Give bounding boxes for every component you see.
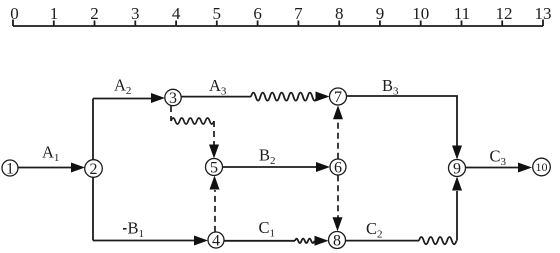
node 8 [329, 232, 346, 249]
node 10 [533, 158, 551, 176]
activity B2 shaft [223, 166, 318, 168]
arrowhead dummy 4-5 into node5 [210, 176, 220, 190]
node 1 [2, 160, 18, 176]
activity C1 shaft [224, 240, 295, 242]
svg-text:10: 10 [412, 4, 429, 23]
arrowhead A2 into node3 [151, 93, 165, 103]
activity A2 shaft [93, 98, 152, 100]
arrowhead A1 into node2 [71, 163, 85, 173]
ruler numbers 0-13 [10, 4, 551, 23]
svg-text:B3: B3 [382, 76, 399, 98]
svg-text:4: 4 [212, 233, 220, 250]
stray scan mark before B1 [123, 228, 127, 230]
svg-text:7: 7 [334, 89, 342, 106]
activity A1 shaft [18, 167, 72, 169]
svg-text:B1: B1 [128, 219, 145, 241]
svg-text:2: 2 [90, 4, 99, 23]
svg-text:C2: C2 [366, 219, 383, 241]
activity B1 shaft [93, 240, 195, 242]
arrowhead B1 into node4 [194, 236, 208, 246]
arrowhead A3 into node7 [316, 92, 330, 102]
node 7 [330, 88, 347, 105]
svg-text:7: 7 [294, 4, 303, 23]
svg-text:5: 5 [210, 160, 218, 177]
svg-text:9: 9 [453, 161, 461, 178]
node 6 [330, 159, 346, 175]
dummy 3-5 dashed drop [170, 106, 172, 121]
arrowhead C2 into node9 [452, 177, 462, 191]
svg-text:A1: A1 [42, 143, 59, 165]
svg-text:0: 0 [10, 4, 19, 23]
dummy 4-5 dashed riser [214, 190, 216, 232]
ruler ticks [13, 20, 543, 27]
arrowhead C3 into node10 [518, 163, 532, 173]
svg-text:6: 6 [253, 4, 262, 23]
node 4 [208, 232, 224, 248]
activity B3 shaft [347, 96, 457, 146]
wire node2 down to B1 level [92, 177, 94, 240]
svg-text:6: 6 [334, 160, 342, 177]
arrowhead dummy 6-7 into node7 [333, 105, 343, 119]
node 5 [206, 159, 223, 176]
svg-text:C1: C1 [259, 218, 276, 240]
arrowhead C1 into node8 [315, 236, 329, 246]
svg-text:3: 3 [169, 90, 177, 107]
arrowhead B2 into node6 [316, 162, 330, 172]
wire node2 up to A2 level [92, 99, 94, 161]
arrowhead B3 into node9 [452, 146, 462, 160]
svg-text:11: 11 [454, 4, 470, 23]
svg-text:5: 5 [213, 4, 222, 23]
activity C1 float squiggle [295, 239, 315, 243]
node 3 [165, 89, 181, 105]
svg-text:12: 12 [496, 4, 513, 23]
activity C2 shaft [346, 240, 420, 242]
arrowhead dummy 6-8 into node8 [333, 217, 343, 231]
activity C2 float squiggle [419, 237, 457, 244]
dummy 3-5 float squiggle [171, 118, 214, 124]
node 9 [449, 160, 466, 177]
svg-text:3: 3 [131, 4, 140, 23]
node numbers [6, 89, 548, 250]
node 2 [85, 160, 103, 178]
activity C3 shaft [466, 167, 520, 169]
svg-text:C3: C3 [490, 147, 507, 169]
svg-text:8: 8 [333, 233, 341, 250]
activity A3 shaft [181, 96, 251, 98]
dummy 6-8 dashed drop [337, 175, 339, 217]
svg-text:A3: A3 [209, 76, 227, 98]
dummy 6-7 dashed riser [337, 120, 339, 159]
wire C2 up to node9 [456, 191, 458, 241]
svg-text:1: 1 [6, 161, 14, 178]
ruler baseline [13, 25, 543, 27]
svg-text:9: 9 [376, 4, 385, 23]
activity labels [42, 76, 507, 241]
svg-text:1: 1 [50, 4, 59, 23]
arrowhead dummy 3-5 into node5 [209, 145, 219, 159]
svg-text:13: 13 [535, 4, 552, 23]
svg-text:2: 2 [90, 161, 98, 178]
svg-text:A2: A2 [114, 76, 131, 98]
dummy 3-5 dashed drop to node5 [213, 121, 215, 145]
activity A3 float squiggle [251, 93, 317, 101]
svg-text:4: 4 [172, 4, 181, 23]
svg-text:8: 8 [335, 4, 344, 23]
svg-text:B2: B2 [259, 146, 276, 168]
svg-text:10: 10 [536, 160, 548, 174]
